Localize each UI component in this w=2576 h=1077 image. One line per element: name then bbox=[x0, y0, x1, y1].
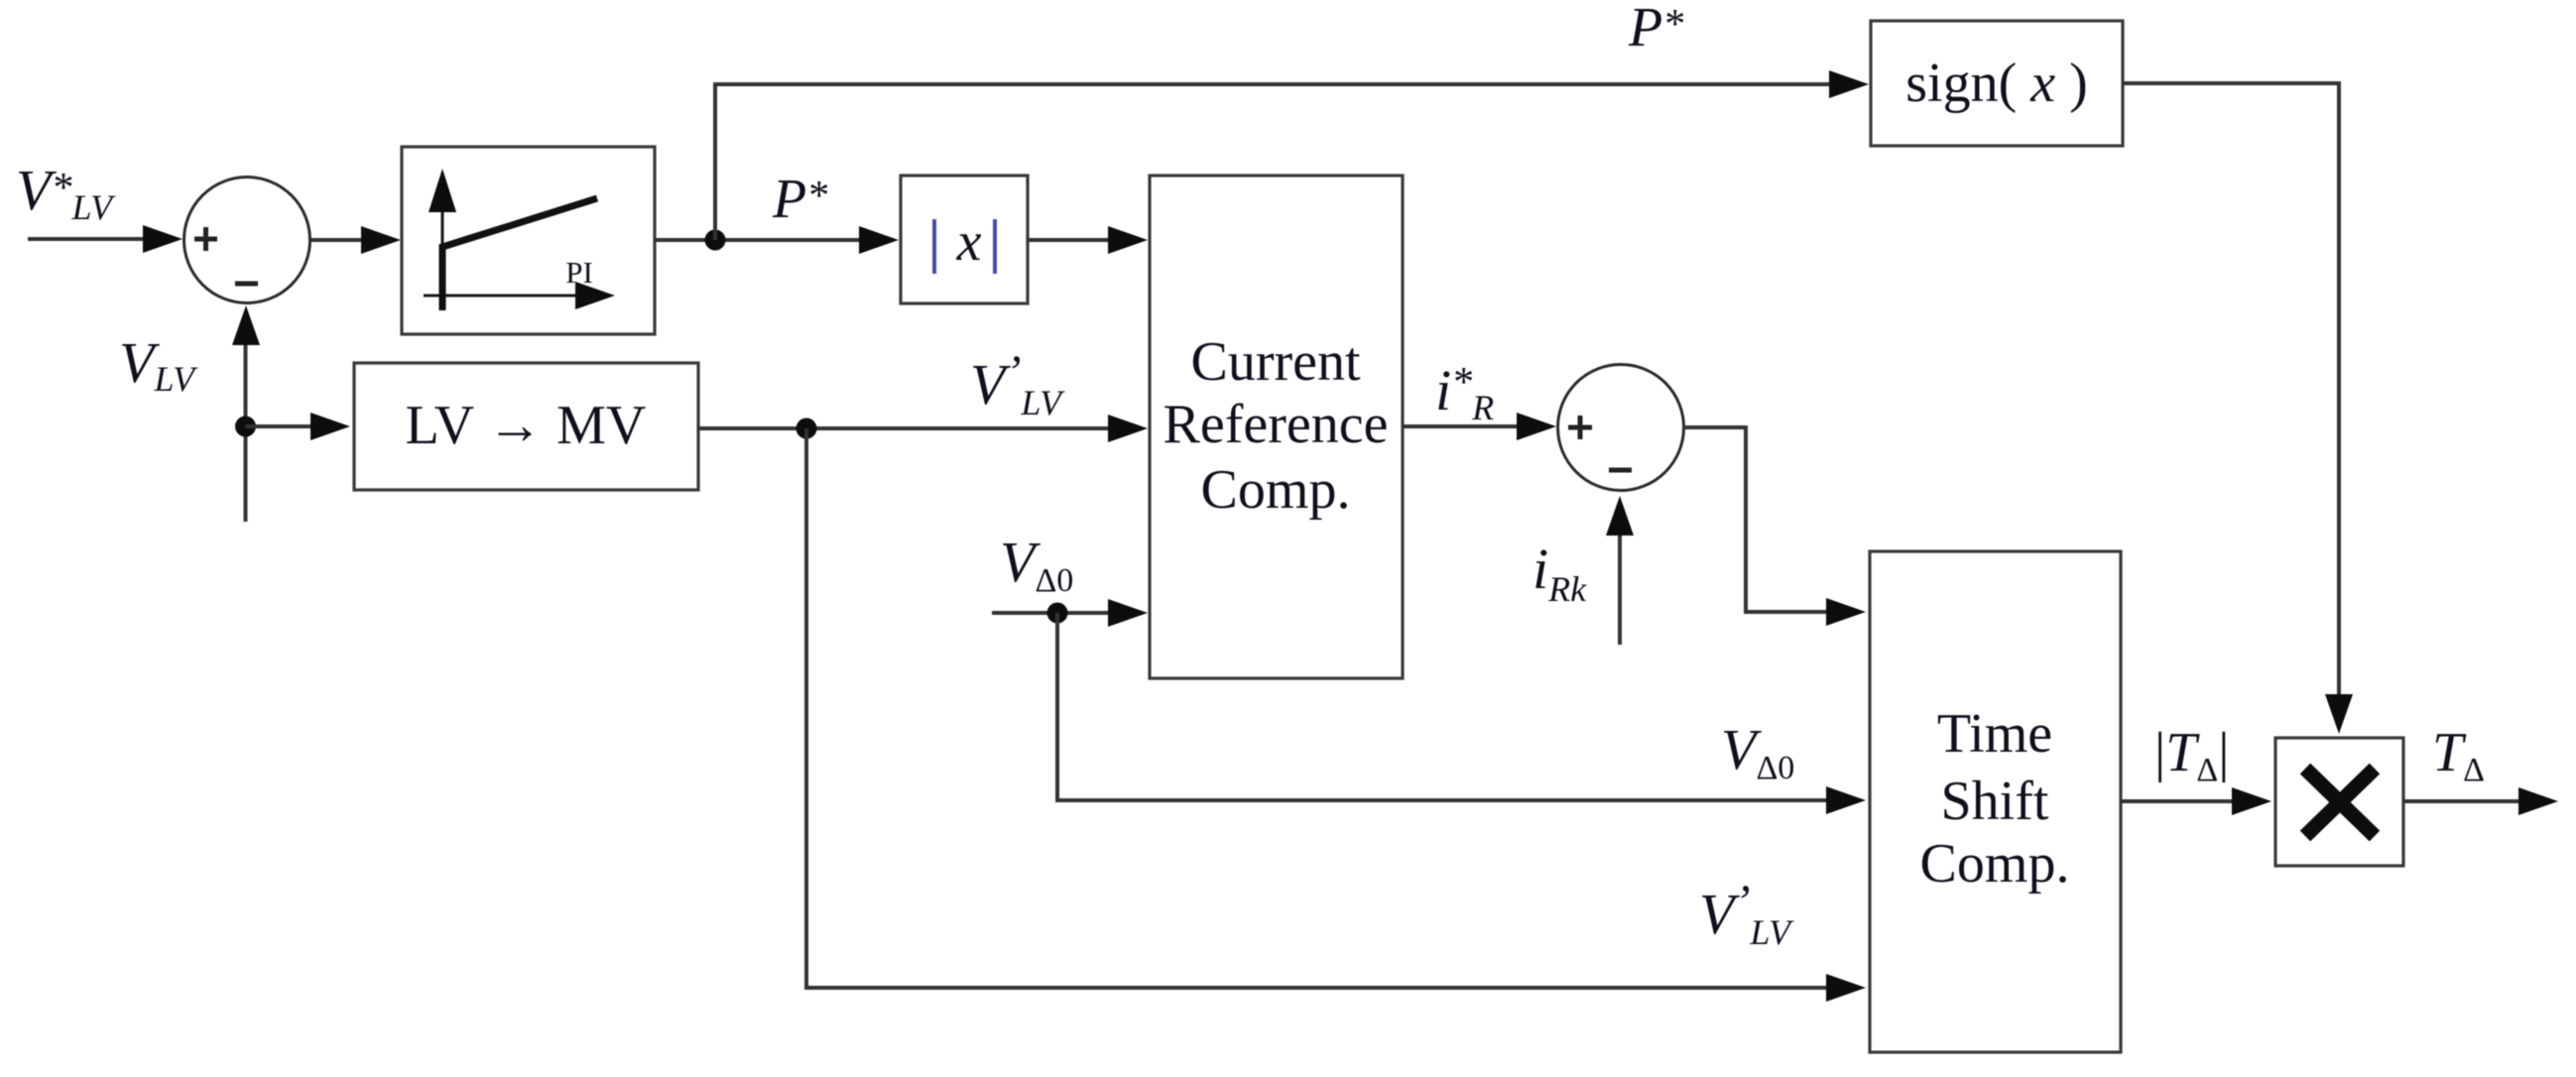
junction dot V_LV bbox=[235, 417, 256, 437]
i_Rk input arrow bbox=[1618, 534, 1622, 645]
block Current Reference Comp bbox=[1150, 176, 1403, 678]
wire PI to abs with junction bbox=[655, 238, 861, 242]
summing junction S2 bbox=[1558, 365, 1684, 491]
svg-text:Comp.: Comp. bbox=[1201, 459, 1351, 521]
svg-text:|TΔ|: |TΔ| bbox=[2154, 722, 2229, 788]
block Time Shift Comp bbox=[1870, 551, 2121, 1052]
svg-text:Current: Current bbox=[1190, 331, 1361, 393]
summing junction S1 bbox=[184, 178, 310, 303]
wire V_D0 input bbox=[992, 611, 1110, 615]
wire V_LV to LVMV bbox=[246, 424, 313, 428]
svg-text:Time: Time bbox=[1937, 703, 2052, 765]
wire S2 to TSC bbox=[1683, 427, 1828, 612]
multiplier block bbox=[2275, 738, 2403, 866]
svg-text:x: x bbox=[956, 211, 982, 273]
svg-text:Reference: Reference bbox=[1164, 394, 1389, 455]
svg-text:LV → MV: LV → MV bbox=[406, 395, 647, 456]
abs block |x| bbox=[901, 176, 1028, 303]
junction dot P* bbox=[705, 230, 726, 251]
svg-text:Comp.: Comp. bbox=[1920, 833, 2070, 895]
block LV to MV bbox=[354, 363, 698, 490]
wire CRC to S2 bbox=[1403, 424, 1519, 428]
junction dot V'_LV bbox=[797, 419, 817, 439]
wire sign to multiplier bbox=[2123, 83, 2339, 696]
sign block bbox=[1871, 21, 2123, 146]
wire V_D0 branch to TSC bbox=[1057, 613, 1828, 800]
svg-text:sign( x ): sign( x ) bbox=[1905, 53, 2088, 114]
wire abs to CRC bbox=[1028, 238, 1110, 242]
wire S1 to PI bbox=[310, 238, 365, 242]
wire LVMV to CRC with junction bbox=[698, 426, 1110, 430]
output wire T_D bbox=[2403, 799, 2520, 803]
wire branch to sign(x) bbox=[715, 84, 1831, 240]
svg-text:Shift: Shift bbox=[1941, 771, 2049, 832]
PI block bbox=[402, 147, 655, 334]
svg-text:PI: PI bbox=[565, 255, 593, 290]
wire TSC to multiplier bbox=[2121, 799, 2234, 803]
wire V*_LV input bbox=[28, 237, 145, 241]
junction dot V_D0 bbox=[1047, 603, 1068, 624]
wire V_LV input vertical bbox=[244, 345, 248, 522]
wire V'_LV branch to TSC bottom bbox=[806, 428, 1828, 988]
